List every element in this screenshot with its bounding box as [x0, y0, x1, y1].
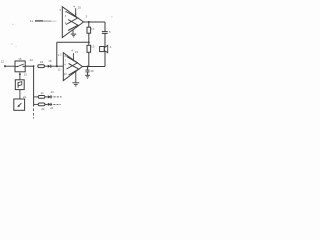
svg-text:15: 15 [75, 50, 79, 54]
svg-text:13: 13 [91, 45, 95, 49]
svg-text:12: 12 [1, 60, 5, 64]
svg-text:16: 16 [18, 57, 22, 61]
svg-text:26: 26 [91, 69, 95, 73]
svg-text:24: 24 [50, 106, 54, 110]
svg-text:20: 20 [41, 107, 45, 111]
svg-text:17: 17 [91, 27, 95, 31]
svg-text:21: 21 [41, 91, 45, 95]
svg-text:15: 15 [24, 73, 28, 77]
svg-text:22: 22 [30, 58, 34, 62]
svg-text:11: 11 [30, 19, 33, 23]
svg-text:18: 18 [48, 59, 52, 63]
svg-text:19: 19 [40, 60, 44, 64]
svg-text:24: 24 [23, 95, 27, 99]
svg-text:23: 23 [51, 90, 55, 94]
svg-text:25: 25 [78, 6, 82, 10]
